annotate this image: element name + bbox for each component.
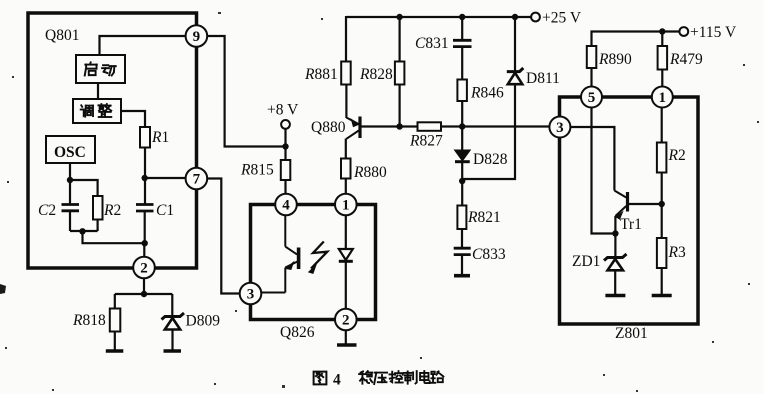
svg-text:R846: R846	[470, 85, 504, 102]
svg-text:7: 7	[193, 172, 201, 188]
wire pin7 to pin 3 of Q826	[207, 179, 240, 294]
ground under R818	[106, 349, 124, 353]
wire terminal down through node to R815	[284, 129, 286, 160]
resistor R890	[587, 46, 597, 68]
resistor R846	[457, 80, 467, 102]
svg-text:2: 2	[342, 313, 350, 329]
svg-text:+115 V: +115 V	[690, 24, 737, 41]
wire R815 to pin 4	[284, 180, 286, 194]
wire pin5 up to R890	[590, 68, 592, 87]
zener diode ZD1	[604, 254, 627, 270]
wire 启动 top to pin 9	[100, 36, 197, 55]
node R2/R3/base	[659, 201, 665, 207]
wire C1 bottom to node	[144, 211, 146, 243]
svg-text:4: 4	[282, 198, 290, 214]
svg-text:2: 2	[140, 261, 148, 277]
wire junction to pin 7	[145, 177, 186, 179]
svg-text:Z801: Z801	[615, 325, 648, 342]
wire D828 down through node to R821	[461, 162, 463, 206]
svg-text:Q880: Q880	[311, 119, 346, 136]
IC block Z801 outline box	[560, 97, 699, 324]
wire 启动 to 调整	[97, 83, 99, 99]
zener diode D809	[162, 313, 185, 330]
resistor R1	[140, 127, 150, 148]
wire node down and right to C1 column	[83, 231, 145, 243]
resistor R2 (inside Z801)	[657, 143, 667, 173]
svg-text:R1: R1	[151, 129, 169, 146]
svg-text:R827: R827	[409, 133, 443, 150]
block 调整 (adjust)	[73, 99, 121, 123]
wire node down to R479	[661, 32, 663, 47]
pin 3 of Z801	[549, 117, 570, 138]
wire R890 up and right to +115V rail	[592, 32, 680, 47]
svg-text:1: 1	[342, 198, 350, 214]
node C1 bottom	[142, 240, 148, 246]
wire Tr1 emitter down to ZD1 node	[614, 216, 616, 234]
svg-text:1: 1	[659, 90, 667, 106]
block OSC	[46, 136, 95, 163]
svg-text:R890: R890	[598, 51, 632, 68]
ground under Q826 pin 2	[337, 343, 357, 347]
capacitor C833	[454, 248, 471, 254]
svg-text:OSC: OSC	[54, 144, 86, 161]
ground under ZD1	[605, 294, 625, 298]
wire R479 down to pin 1	[661, 70, 663, 87]
wire pin1 down to R2	[661, 108, 663, 143]
ground under C833	[454, 274, 470, 278]
svg-text:C1: C1	[156, 202, 174, 219]
wire node to D828	[461, 127, 463, 151]
node below OSC	[67, 177, 73, 183]
svg-text:Tr1: Tr1	[620, 216, 642, 233]
svg-text:D811: D811	[526, 70, 560, 87]
base wire Q880 to R827 and on to pin 3 of Z801	[362, 125, 550, 127]
svg-text:9: 9	[193, 29, 201, 45]
capacitor C831	[453, 40, 472, 46]
svg-text:R3: R3	[668, 244, 686, 261]
wire pin2 down to R818/D809 tee	[143, 278, 145, 294]
caption 图 4 稳压控制电路	[314, 371, 444, 388]
pin 1 of Q826	[335, 194, 357, 216]
svg-text:Q801: Q801	[45, 27, 79, 44]
resistor R828	[395, 62, 405, 85]
resistor R827 (horizontal)	[418, 122, 442, 131]
resistor R3 (inside Z801)	[657, 238, 667, 268]
resistor R880	[341, 159, 351, 179]
capacitor C2	[62, 205, 80, 211]
wire Q880 emitter up to R881	[345, 85, 347, 119]
node C2/R2 bottom	[79, 228, 85, 234]
wire R1 to node, down to C1	[144, 148, 146, 205]
wire down to R818	[114, 294, 116, 309]
node R846/D828 on base wire	[459, 123, 465, 129]
wire node to ZD1	[614, 234, 616, 258]
node R1/C1/pin7 junction	[142, 175, 148, 181]
svg-text:R815: R815	[240, 162, 274, 179]
resistor R821	[457, 206, 466, 230]
terminal +25V	[531, 13, 540, 22]
resistor R479	[658, 46, 668, 70]
svg-text:R479: R479	[669, 51, 703, 68]
node rail/R828	[396, 14, 402, 20]
wire R821 to C833	[461, 229, 463, 248]
svg-text:R818: R818	[72, 312, 106, 329]
top rail to +25V	[346, 16, 531, 18]
svg-text:5: 5	[588, 90, 596, 106]
pin 2 of Q826	[335, 309, 357, 331]
wire pin5 down and right to ZD1 node	[592, 108, 616, 234]
svg-text:4: 4	[333, 372, 341, 389]
wire D809 to ground	[171, 330, 173, 351]
wire OSC down to node	[69, 163, 71, 180]
block 启动 (start)	[76, 55, 125, 83]
wire rail to D811	[514, 17, 516, 71]
wire pin 2 to ground	[345, 330, 347, 344]
svg-text:R2: R2	[668, 147, 686, 164]
node D828/D811 return	[459, 178, 465, 184]
svg-text:3: 3	[556, 120, 564, 136]
resistor R815	[281, 160, 291, 180]
wire R828 down to base node	[399, 85, 401, 127]
pin 7	[186, 168, 208, 190]
IC block Q801 outline box	[28, 13, 197, 268]
svg-text:D809: D809	[186, 313, 221, 330]
wire down to D809	[171, 294, 173, 317]
node emitter/ZD1	[612, 230, 618, 236]
resistor R818	[110, 309, 121, 332]
wire node down to pin 2	[143, 243, 145, 257]
resistor R881	[341, 62, 351, 85]
svg-text:R821: R821	[467, 209, 501, 226]
node R479 top	[659, 28, 665, 34]
svg-text:R2: R2	[103, 202, 121, 219]
pin 5 of Z801	[581, 87, 602, 108]
svg-text:R880: R880	[353, 164, 387, 181]
wire R3 to ground	[661, 268, 663, 294]
wire R818 to ground	[114, 332, 116, 351]
terminal +115V	[679, 27, 688, 36]
svg-text:Q826: Q826	[280, 324, 315, 341]
optocoupler Q826 box	[251, 205, 376, 320]
wire R880 up to Q880 emitter... collector	[345, 139, 347, 159]
pin 3 of Q826	[240, 283, 262, 305]
diode D828	[455, 150, 470, 161]
resistor R2	[93, 196, 103, 220]
terminal +8V	[281, 120, 290, 129]
wire pin3 right then down to Tr1 collector	[570, 127, 614, 191]
svg-text:R828: R828	[359, 66, 393, 83]
wire node down to C2	[69, 180, 71, 204]
svg-text:R881: R881	[304, 66, 338, 83]
transistor Tr1 (NPN)	[614, 191, 627, 217]
pin 4 of Q826	[275, 194, 297, 216]
ground under R3	[652, 294, 672, 298]
wire R846 down to node on base wire	[461, 101, 463, 127]
scan edge mark left margin	[0, 284, 6, 294]
transistor Q880 (PNP)	[346, 117, 360, 139]
svg-text:ZD1: ZD1	[572, 253, 600, 270]
node below pin 2	[141, 291, 147, 297]
wire D811 anode down across base wire to corner	[462, 84, 515, 179]
wire tee horizontal	[115, 293, 173, 295]
wire pin9 to +8V node	[207, 36, 285, 147]
svg-text:C2: C2	[38, 202, 56, 219]
pin 2	[133, 257, 155, 279]
node rail/D811	[512, 14, 518, 20]
ground under D809	[164, 349, 182, 353]
wire C833 to ground	[461, 255, 463, 275]
node rail/C831	[459, 14, 465, 20]
pin 1 of Z801	[652, 87, 673, 108]
wire R881 top to rail	[345, 16, 347, 62]
light arrow (lightning) inside Q826	[311, 242, 327, 269]
wire 调整 to R1	[121, 111, 145, 127]
wire rail to R828	[399, 17, 401, 62]
wire node to R2 top	[70, 180, 98, 196]
wire ZD1 to ground	[614, 270, 616, 294]
node base/R828	[396, 123, 402, 129]
svg-text:3: 3	[247, 287, 255, 303]
phototransistor of Q826	[262, 215, 299, 292]
diode D811 (pointing up)	[507, 68, 524, 84]
wire pin1 up to R880	[345, 179, 347, 194]
wire C831 to R846	[461, 47, 463, 80]
LED of Q826	[339, 215, 353, 308]
svg-text:+25 V: +25 V	[542, 10, 582, 27]
wire rail to C831	[461, 17, 463, 40]
wire C2 bottom joins R2 bottom	[69, 211, 71, 231]
svg-text:C833: C833	[472, 246, 506, 263]
capacitor C1	[136, 205, 154, 212]
base wire Tr1 to R2/R3 node	[629, 203, 662, 205]
svg-text:+8 V: +8 V	[267, 102, 299, 119]
svg-text:C831: C831	[415, 35, 449, 52]
node +8V/R815	[282, 143, 288, 149]
wire R2 down through node to R3	[661, 173, 663, 239]
svg-text:D828: D828	[473, 151, 508, 168]
pin 9	[186, 25, 208, 47]
